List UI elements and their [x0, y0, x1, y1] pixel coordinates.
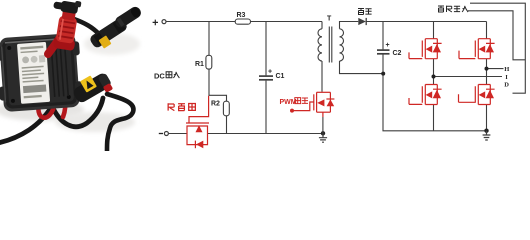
top highlight: [5, 38, 69, 42]
junction node right bridge mid: [485, 67, 489, 71]
wire top rail left: [166, 21, 235, 23]
wire R1 branch: [208, 22, 210, 56]
transformer T primary winding: [318, 29, 322, 61]
black cable from connector to adapter: [74, 19, 99, 34]
wire C2 to node: [382, 54, 384, 73]
floor shadow under cables: [55, 112, 135, 132]
wire igniter outer: [470, 3, 525, 93]
PWM MOSFET (red): [293, 92, 334, 117]
wire lamp line H: [487, 68, 504, 70]
long black cable sweeping bottom: [0, 98, 103, 143]
MOSFET upper-right of bridge: [459, 39, 495, 59]
svg-text:C2: C2: [393, 50, 402, 57]
wire node down to output rail: [383, 74, 487, 131]
igniter module with yellow warning label: [72, 72, 113, 105]
wire lamp line I: [434, 76, 503, 78]
freewheel diode: [358, 18, 366, 25]
svg-text:H: H: [504, 66, 509, 73]
wire bridge right leg (segments): [486, 22, 488, 131]
junction node bridge ground: [484, 129, 488, 133]
label − terminal: [159, 133, 163, 135]
junction node PWM source/ground: [321, 131, 325, 135]
red cable loop bottom-left: [38, 99, 55, 118]
wire bottom rail left: [168, 133, 187, 135]
red connector boot: [47, 0, 81, 51]
ground (bridge): [483, 131, 491, 140]
transformer core: [329, 27, 332, 63]
wire igniter inner: [468, 11, 525, 60]
black clip of connector: [60, 1, 79, 15]
resistor R3: [235, 19, 250, 24]
svg-text:R3: R3: [237, 12, 246, 19]
svg-text:+: +: [386, 42, 390, 49]
svg-text:D: D: [504, 81, 509, 88]
label DC输入 glyphs: [166, 72, 179, 78]
svg-text:PWM: PWM: [280, 99, 297, 106]
anti-reverse MOSFET (red): [186, 96, 209, 145]
transformer T primary feed: [321, 22, 323, 29]
wire R1 to jog: [209, 70, 227, 102]
svg-text:DC: DC: [154, 71, 165, 80]
wire secondary top: [340, 22, 359, 29]
wire C1 to bottom rail: [265, 81, 267, 134]
capacitor C1: [259, 75, 273, 77]
ballast main box: [0, 33, 84, 113]
MOSFET upper-left of bridge: [409, 39, 442, 59]
label + terminal: [153, 20, 158, 26]
wire C1 branch: [265, 22, 267, 76]
small red tip on module end: [103, 83, 113, 93]
wire secondary bottom: [340, 61, 384, 74]
white label: [17, 42, 50, 104]
wire PWM source to ground: [322, 117, 324, 133]
ribs right of label: [51, 46, 68, 97]
label 续流 glyphs: [358, 9, 372, 15]
junction node left bridge mid: [432, 75, 436, 79]
red input cable to connector: [48, 34, 62, 54]
mounting tabs: [0, 46, 4, 60]
adapter connector (black): [89, 17, 129, 50]
svg-text:R1: R1: [195, 61, 204, 68]
wire primary to Q drain: [321, 61, 323, 92]
capacitor C2: [377, 49, 390, 51]
wire bridge left leg (segments): [433, 22, 435, 131]
MOSFET lower-left of bridge: [409, 85, 442, 105]
text labels: [0, 0, 1, 1]
label 高压打火 glyphs: [438, 6, 468, 12]
black cap top right: [113, 5, 143, 30]
node - input terminal: [164, 132, 168, 136]
shadow under igniter connectors: [84, 33, 140, 55]
junction node C2/secondary: [381, 72, 385, 76]
wire diode to bridge: [366, 21, 486, 23]
resistor R2: [223, 101, 229, 116]
red cable on right side of box: [57, 82, 65, 117]
node + input terminal: [162, 20, 166, 24]
MOSFET lower-right of bridge: [459, 85, 495, 105]
node PWM gate dot: [290, 109, 294, 113]
wire top rail right of R3: [251, 21, 323, 23]
yellow warning label: [80, 75, 97, 92]
yellow label on adapter: [99, 35, 112, 48]
hook cable from module to bottom edge: [107, 94, 133, 151]
transformer T secondary winding: [340, 29, 344, 61]
svg-text:T: T: [327, 16, 332, 23]
ground (PWM source): [319, 133, 327, 142]
wire bottom rail mid: [208, 133, 324, 135]
wire C2 branch: [382, 22, 384, 50]
svg-text:+: +: [268, 69, 272, 76]
svg-text:R2: R2: [211, 101, 220, 108]
floor shadow under ballast: [0, 99, 84, 121]
screws: [7, 46, 11, 50]
wire R2 to bottom rail: [226, 116, 228, 134]
resistor R1: [206, 55, 212, 69]
label 防反接 glyphs (red): [168, 103, 195, 110]
svg-text:C1: C1: [276, 73, 285, 80]
